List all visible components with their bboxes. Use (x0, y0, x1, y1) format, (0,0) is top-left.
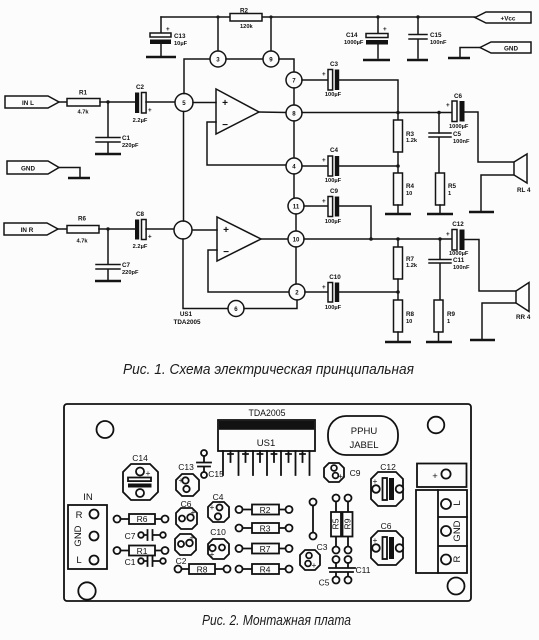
svg-text:RR 4: RR 4 (516, 314, 531, 321)
wire pin11 to pin10 (295, 214, 297, 231)
node C7 junction (106, 227, 109, 230)
wire U1a feedback to pin4 (207, 122, 286, 165)
svg-text:1000µF: 1000µF (449, 124, 469, 130)
IC US1 TDA2005 (218, 408, 315, 475)
node R7/R8 junction (396, 290, 400, 294)
pin 7 (286, 72, 302, 88)
capacitor C7 (96, 229, 139, 280)
svg-text:C5: C5 (453, 131, 462, 138)
svg-text:+: + (322, 284, 326, 291)
svg-text:+: + (373, 476, 378, 486)
connector IN R (4, 223, 58, 235)
svg-text:+: + (148, 234, 152, 241)
svg-text:US1: US1 (257, 438, 275, 449)
svg-text:+: + (210, 502, 215, 512)
op-amp U1a (216, 89, 259, 134)
svg-text:R1: R1 (137, 546, 148, 556)
svg-text:IN R: IN R (21, 227, 34, 234)
svg-text:R8: R8 (197, 565, 208, 575)
svg-text:R7: R7 (406, 256, 415, 263)
svg-text:L: L (76, 555, 81, 566)
svg-text:C5: C5 (319, 578, 330, 588)
connector GND left (7, 161, 80, 177)
capacitor C3 (PCB) (300, 542, 328, 570)
svg-text:+: + (179, 475, 184, 485)
wire speaker RL to ground (481, 175, 514, 211)
svg-text:R7: R7 (260, 544, 271, 554)
connector IN (PCB) (68, 492, 107, 569)
wire pin3 to pin9 (226, 58, 263, 60)
svg-text:+: + (191, 507, 196, 517)
wire C9 to pin10 line (339, 206, 371, 239)
svg-text:C11: C11 (453, 257, 465, 264)
wire pin8 output line (302, 112, 452, 114)
ground (C13) (146, 56, 176, 59)
svg-text:+: + (146, 468, 151, 478)
pin 6 (228, 301, 244, 317)
wire pin4 to pin11 (293, 174, 295, 198)
svg-text:1.2k: 1.2k (406, 263, 418, 269)
node R7 top (396, 237, 400, 241)
resistor R3 (394, 113, 418, 153)
svg-text:+: + (312, 560, 317, 570)
svg-text:C3: C3 (317, 542, 328, 552)
node C15 junction (416, 15, 419, 18)
resistor R8 (394, 300, 415, 341)
svg-text:IN: IN (83, 492, 93, 503)
svg-text:GND: GND (73, 525, 84, 546)
svg-text:100µF: 100µF (325, 219, 342, 225)
svg-text:R5: R5 (331, 518, 341, 529)
capacitor C8 (PCB, labelled C6) (176, 499, 197, 529)
svg-text:−: − (223, 247, 229, 258)
svg-text:10: 10 (406, 191, 412, 197)
wire input node to pin6 (183, 239, 228, 309)
svg-text:R9: R9 (447, 311, 456, 318)
wire speaker RR to ground (482, 303, 516, 339)
speaker RL 4 (514, 154, 531, 194)
capacitor C1 (96, 102, 139, 153)
svg-text:+: + (446, 102, 450, 109)
mounting hole top left (97, 421, 114, 438)
wire C6 to speaker RL (465, 112, 515, 162)
capacitor C4 (302, 147, 342, 184)
capacitor C6 (446, 93, 469, 130)
connector +Vcc (475, 12, 531, 23)
svg-text:R4: R4 (406, 183, 415, 190)
svg-text:Рис. 1. Схема электрическая пр: Рис. 1. Схема электрическая принципальна… (123, 362, 414, 378)
PCB board outline (64, 404, 471, 601)
svg-text:10µF: 10µF (174, 41, 188, 47)
svg-text:C15: C15 (208, 469, 224, 479)
resistor R9 (PCB) (343, 495, 353, 554)
svg-text:R3: R3 (260, 524, 271, 534)
svg-text:GND: GND (452, 520, 463, 541)
svg-text:GND: GND (504, 46, 518, 53)
svg-text:IN L: IN L (22, 100, 34, 107)
svg-text:1000µF: 1000µF (344, 40, 364, 46)
capacitor C14 (PCB) (123, 453, 158, 500)
capacitor C9 (PCB) (324, 463, 361, 482)
wire input node to U1b input (192, 229, 217, 231)
svg-text:+: + (322, 198, 326, 205)
svg-text:220pF: 220pF (122, 143, 139, 149)
resistor R6 (67, 216, 99, 245)
svg-text:100nF: 100nF (453, 265, 470, 271)
svg-text:1.2k: 1.2k (406, 138, 418, 144)
svg-text:+: + (148, 107, 152, 114)
svg-text:R8: R8 (406, 311, 415, 318)
svg-text:C13: C13 (178, 462, 194, 472)
ground (R5) (427, 213, 453, 216)
capacitor C12 (PCB) (371, 462, 403, 506)
wire C3 to pin8 rail (339, 80, 398, 112)
svg-text:+: + (446, 231, 450, 238)
svg-text:Рис. 2. Монтажная плата: Рис. 2. Монтажная плата (202, 613, 351, 629)
svg-text:R6: R6 (137, 514, 148, 524)
wire U1a output to pin8 (259, 111, 286, 114)
svg-text:+: + (383, 26, 387, 33)
wire C12 to speaker RR (465, 240, 517, 292)
ground (C14) (363, 59, 390, 62)
ground (R8) (385, 341, 411, 344)
svg-text:11: 11 (293, 204, 300, 211)
resistor R4 (PCB) (236, 564, 293, 575)
ground (R4) (385, 213, 411, 216)
wire pin8 to pin4 (293, 121, 295, 158)
ground (speaker RL) (469, 211, 494, 214)
node C11 top (438, 237, 442, 241)
resistor R3 (PCB) (236, 523, 293, 534)
mounting hole top right (428, 417, 445, 434)
svg-text:C9: C9 (350, 468, 361, 478)
svg-text:C2: C2 (136, 84, 145, 91)
svg-text:C14: C14 (132, 453, 148, 463)
capacitor C2 (133, 84, 152, 124)
mounting hole bottom left (78, 582, 95, 599)
wire C4 to R3/R4 junction (339, 165, 398, 167)
wire R7 to R8 (397, 279, 399, 300)
capacitor C13 (150, 17, 188, 56)
connector GND top right (460, 42, 531, 57)
wire IN R to R6 (58, 228, 67, 230)
capacitor C15 (409, 17, 447, 58)
wire IN L to R1 (59, 101, 67, 103)
svg-text:4.7k: 4.7k (77, 110, 89, 116)
node R3 top (396, 111, 400, 115)
capacitor C10 (305, 274, 342, 311)
svg-text:GND: GND (21, 166, 35, 173)
wire C10 to R7/R8 junction (339, 291, 398, 293)
resistor R7 (PCB) (236, 544, 293, 555)
pin 4 (286, 158, 302, 174)
caption figure 2 (202, 613, 351, 629)
resistor R8 (PCB) (175, 564, 231, 575)
wire pin10 output line (304, 238, 452, 240)
connector output L GND R (PCB) (416, 490, 467, 573)
capacitor C12 (446, 221, 469, 257)
wire pin3 feed (217, 17, 219, 51)
node input right (blank pin) (174, 221, 192, 239)
label US1 TDA2005 (174, 311, 201, 326)
pin 10 (288, 231, 304, 247)
svg-text:L: L (452, 500, 463, 505)
wire R3 to R4 (397, 152, 399, 173)
pin 2 (289, 284, 305, 300)
node C5 top (437, 111, 441, 115)
svg-text:C14: C14 (346, 32, 358, 39)
svg-text:+Vcc: +Vcc (501, 16, 516, 23)
svg-text:TDA2005: TDA2005 (249, 408, 286, 419)
wire pin9 to pin7 (279, 59, 294, 72)
pin 11 (288, 198, 304, 214)
svg-text:10: 10 (406, 319, 412, 325)
wire top +Vcc rail (161, 16, 475, 18)
capacitor C15 (PCB) (197, 450, 224, 479)
svg-text:1000µF: 1000µF (449, 251, 469, 257)
wire pin6 to pin2 (244, 300, 297, 309)
svg-text:1: 1 (448, 191, 451, 197)
svg-text:R: R (452, 555, 463, 562)
wire U1b output to pin10 (261, 238, 288, 240)
svg-text:C13: C13 (174, 33, 186, 40)
svg-text:C4: C4 (213, 492, 224, 502)
resistor R2 (230, 8, 262, 31)
wire C2 to pin5 (146, 101, 175, 103)
capacitor C9 (304, 188, 342, 225)
svg-text:C9: C9 (330, 188, 339, 195)
wire pin5 to op-amp U1a input (193, 102, 216, 104)
svg-text:120k: 120k (240, 24, 253, 30)
capacitor C3 (302, 61, 342, 98)
node C9 drop (369, 237, 373, 241)
svg-text:+: + (222, 98, 228, 109)
svg-text:C4: C4 (330, 147, 339, 154)
node C1 junction (106, 100, 109, 103)
wire R1 to C2 (100, 101, 135, 103)
capacitor C13 (PCB) (176, 462, 199, 496)
wire C8 to input node (146, 228, 174, 230)
svg-text:C12: C12 (380, 462, 396, 472)
svg-text:RL 4: RL 4 (517, 187, 531, 194)
jumper link (PCB) (310, 499, 317, 540)
svg-text:100nF: 100nF (453, 139, 470, 145)
svg-text:C7: C7 (125, 531, 136, 541)
wire pin7 to pin8 (293, 88, 295, 105)
node rail pin3 junction (216, 15, 219, 18)
capacitor C5 (PCB) (319, 556, 340, 588)
svg-text:R2: R2 (240, 8, 249, 15)
svg-text:C11: C11 (356, 565, 371, 575)
svg-text:C10: C10 (210, 527, 226, 537)
svg-text:R9: R9 (343, 518, 353, 529)
svg-text:2.2µF: 2.2µF (133, 244, 148, 250)
svg-text:2.2µF: 2.2µF (133, 118, 148, 124)
svg-text:10: 10 (293, 237, 300, 244)
wire pin5 up to pin3 (184, 59, 210, 94)
svg-text:−: − (222, 120, 228, 131)
svg-text:C8: C8 (136, 211, 145, 218)
svg-text:+: + (373, 535, 378, 545)
svg-text:+: + (432, 471, 438, 482)
wire U1b feedback to pin2 (208, 250, 289, 292)
resistor R2 (PCB) (236, 505, 293, 516)
svg-text:100µF: 100µF (325, 305, 342, 311)
svg-text:C2: C2 (176, 556, 187, 566)
svg-text:C10: C10 (329, 274, 341, 281)
resistor R4 (394, 173, 415, 213)
svg-text:TDA2005: TDA2005 (174, 319, 201, 326)
speaker RR 4 (516, 283, 531, 322)
svg-text:R: R (76, 510, 83, 521)
svg-text:R5: R5 (448, 183, 457, 190)
svg-text:R2: R2 (260, 505, 271, 515)
svg-text:C1: C1 (125, 557, 136, 567)
ground (C15) (407, 59, 428, 62)
wire pin5 down to input node (183, 112, 185, 222)
resistor R6 (PCB) (114, 514, 169, 524)
svg-text:C6: C6 (381, 521, 392, 531)
svg-text:C3: C3 (330, 61, 339, 68)
wire pin10 to pin2 (295, 247, 297, 284)
svg-text:C7: C7 (122, 262, 131, 269)
svg-text:100µF: 100µF (325, 92, 342, 98)
connector output + (PCB) (417, 464, 467, 488)
resistor R1 (67, 90, 100, 116)
capacitor C2 (PCB) (175, 533, 196, 567)
svg-text:+: + (338, 471, 343, 481)
capacitor C4 (PCB) (208, 492, 229, 522)
ground (speaker RR) (470, 339, 495, 342)
capacitor C5 (429, 113, 470, 174)
capacitor C7 (PCB) (125, 530, 166, 541)
ground (C7) (95, 280, 121, 283)
svg-text:US1: US1 (180, 311, 193, 318)
svg-text:C6: C6 (454, 93, 463, 100)
svg-text:+: + (322, 157, 326, 164)
ground (left GND connector) (68, 177, 90, 180)
svg-text:R3: R3 (406, 131, 415, 138)
svg-text:+: + (223, 225, 229, 236)
ground (top right) (448, 57, 470, 60)
capacitor C10 (PCB) (208, 527, 229, 559)
svg-text:R1: R1 (79, 90, 88, 97)
ground (C1) (95, 153, 121, 156)
node R3/R4 junction (396, 164, 400, 168)
resistor R1 (PCB) (114, 546, 169, 557)
pin 5 (175, 94, 193, 112)
svg-text:R6: R6 (78, 216, 87, 223)
logo PPHU JABEL (328, 416, 398, 455)
svg-text:+: + (190, 533, 195, 543)
pin 9 (263, 51, 279, 67)
resistor R5 (PCB) (331, 495, 342, 554)
svg-text:220pF: 220pF (122, 270, 139, 276)
svg-text:C15: C15 (430, 32, 442, 39)
capacitor C6 (PCB) (371, 521, 403, 565)
svg-text:100nF: 100nF (430, 40, 447, 46)
capacitor C14 (344, 17, 388, 58)
capacitor C1 (PCB) (125, 556, 166, 567)
svg-text:100µF: 100µF (325, 178, 342, 184)
capacitor C8 (133, 211, 152, 250)
node rail pin9 junction (269, 15, 272, 18)
svg-text:4.7k: 4.7k (76, 239, 88, 245)
caption figure 1 (123, 362, 414, 378)
pin 3 (210, 51, 226, 67)
svg-text:C12: C12 (452, 221, 464, 228)
capacitor C11 (PCB) (329, 556, 371, 584)
op-amp U1b (217, 217, 261, 261)
svg-text:R4: R4 (260, 565, 271, 575)
pin 8 (286, 105, 302, 121)
svg-text:C1: C1 (122, 135, 131, 142)
svg-text:+: + (166, 26, 170, 33)
mounting hole bottom right (448, 578, 465, 595)
ground (R9) (426, 341, 452, 344)
resistor R9 (434, 300, 456, 341)
node C14 junction (376, 15, 379, 18)
resistor R5 (436, 173, 457, 213)
svg-text:+: + (210, 549, 215, 559)
capacitor C11 (429, 239, 470, 300)
svg-text:1: 1 (447, 319, 450, 325)
svg-text:JABEL: JABEL (349, 440, 378, 451)
svg-text:+: + (322, 71, 326, 78)
connector IN L (5, 96, 59, 108)
svg-text:PPHU: PPHU (351, 426, 378, 437)
resistor R7 (394, 239, 418, 279)
wire pin9 feed (270, 17, 272, 51)
wire R6 to C8 (99, 228, 135, 230)
